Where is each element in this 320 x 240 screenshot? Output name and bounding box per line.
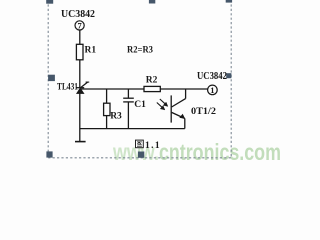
svg-text:TL431: TL431 <box>57 82 78 92</box>
svg-text:R2: R2 <box>146 75 158 85</box>
resistor R2 <box>144 86 160 91</box>
pin 1 of UC3842 <box>208 85 218 95</box>
svg-text:R3: R3 <box>110 112 122 122</box>
wire: feedback rail TL431 to R2 <box>80 88 144 90</box>
pin 7 of UC3842 <box>75 21 84 31</box>
svg-text:R1: R1 <box>85 46 97 56</box>
ground <box>75 141 86 143</box>
optocoupler OT1/2 phototransistor <box>171 89 185 129</box>
svg-text:1: 1 <box>210 85 214 95</box>
watermark www.cntronics.com <box>112 140 281 166</box>
wire pin7 to R1 <box>79 30 81 44</box>
svg-text:R2=R3: R2=R3 <box>127 45 153 55</box>
svg-text:C1: C1 <box>134 100 146 110</box>
svg-text:0T1/2: 0T1/2 <box>191 107 216 117</box>
wire TL431 anode down to ground <box>79 93 81 141</box>
svg-text:UC3842: UC3842 <box>61 9 95 20</box>
svg-text:UC3842: UC3842 <box>197 71 227 82</box>
svg-text:1.1: 1.1 <box>145 141 161 151</box>
wire: R2 to collector node and pin 1 <box>160 88 207 90</box>
svg-text:7: 7 <box>77 21 82 31</box>
caption figure 1.1 glyph (tu) <box>136 140 144 148</box>
IC label UC3842 (pin 7 side) <box>61 9 95 20</box>
wire R1 to TL431 cathode <box>79 60 81 88</box>
capacitor C1 <box>123 89 134 129</box>
resistor R3 <box>104 89 110 129</box>
wire: bottom ground rail <box>80 128 185 130</box>
optocoupler light arrows <box>157 99 168 110</box>
resistor R1 <box>76 44 83 60</box>
shunt regulator TL431 <box>76 82 89 93</box>
